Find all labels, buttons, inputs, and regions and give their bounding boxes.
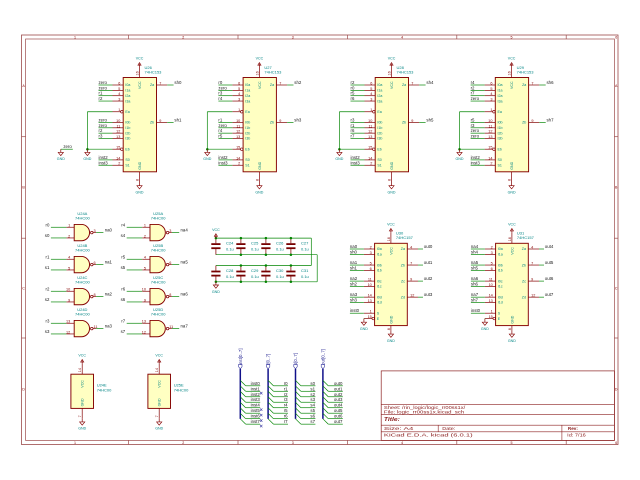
gate U24A 74HC00 body	[74, 224, 93, 240]
IC U28 pin names	[377, 81, 406, 170]
label r3	[99, 134, 103, 139]
svg-text:inst2: inst2	[251, 392, 261, 397]
svg-text:out0: out0	[334, 381, 343, 386]
bus entry inst4	[240, 402, 245, 407]
junction enable net U26	[86, 148, 89, 151]
label r1	[46, 254, 50, 259]
svg-text:sh1: sh1	[174, 117, 182, 122]
svg-text:out5: out5	[545, 260, 554, 265]
svg-text:I0b: I0b	[498, 263, 503, 267]
power VCC above U24E	[78, 354, 86, 364]
svg-text:S1: S1	[498, 163, 502, 167]
svg-text:11: 11	[368, 278, 372, 282]
svg-text:4: 4	[401, 36, 403, 40]
wire s1 from bus	[301, 390, 316, 392]
wire s6 from bus	[301, 418, 316, 420]
IC U26 pin names	[125, 81, 154, 170]
svg-text:3: 3	[490, 98, 492, 102]
svg-text:r3: r3	[218, 91, 222, 96]
label sh6	[547, 80, 555, 85]
svg-text:3: 3	[169, 229, 171, 233]
power GND below U25E	[155, 419, 163, 431]
svg-text:4: 4	[490, 92, 492, 96]
svg-text:out2: out2	[424, 276, 433, 281]
wire U25C output to na6	[172, 296, 179, 298]
wire inst2 to U26.S0	[99, 159, 113, 161]
unconnected marker inst5	[260, 414, 262, 416]
svg-text:3: 3	[118, 98, 120, 102]
label na2	[350, 276, 358, 281]
label sh2	[350, 281, 358, 286]
svg-text:inst1: inst1	[251, 386, 261, 391]
svg-text:sh0: sh0	[350, 249, 358, 254]
svg-text:r2: r2	[99, 96, 103, 101]
svg-text:GND: GND	[158, 398, 162, 406]
svg-text:GND: GND	[57, 157, 65, 161]
svg-text:7: 7	[159, 81, 161, 85]
svg-text:5: 5	[370, 262, 372, 266]
label na6	[181, 292, 189, 297]
label r2	[471, 85, 475, 90]
svg-text:I2a: I2a	[245, 94, 250, 98]
bus inst[0..7]	[239, 369, 241, 419]
wire r7 to U28.I3b	[351, 138, 365, 140]
IC U24E pins and pin numbers	[78, 364, 82, 419]
wire out3 from bus	[328, 401, 343, 403]
svg-text:r[0..7]: r[0..7]	[266, 354, 271, 365]
svg-text:12: 12	[142, 330, 146, 334]
svg-text:out7: out7	[545, 292, 554, 297]
svg-text:VCC: VCC	[138, 81, 142, 89]
IC U29 pin names	[498, 81, 527, 170]
frame column numbers 1-6	[74, 36, 617, 445]
label inst1	[251, 386, 261, 391]
label r0	[284, 381, 288, 386]
label sh6	[471, 281, 479, 286]
svg-text:9: 9	[410, 278, 412, 282]
svg-text:9: 9	[144, 298, 146, 302]
svg-text:74HC157: 74HC157	[396, 235, 414, 240]
wire inst3 to U29.S1	[471, 164, 485, 166]
svg-text:inst3: inst3	[351, 160, 361, 165]
label out3	[424, 292, 433, 297]
svg-text:74HC00: 74HC00	[97, 388, 112, 393]
svg-text:s4: s4	[121, 233, 126, 238]
svg-text:10: 10	[489, 283, 493, 287]
svg-text:9: 9	[159, 119, 161, 123]
wire s6 to U25C input 2	[127, 301, 143, 303]
wire out1 from bus	[328, 390, 343, 392]
label out4	[545, 244, 554, 249]
svg-text:inst3: inst3	[99, 160, 109, 165]
power GND for zero net	[57, 149, 65, 161]
junction enable net U28	[338, 148, 341, 151]
svg-text:6: 6	[370, 81, 372, 85]
label na7	[181, 324, 189, 329]
svg-text:13: 13	[236, 135, 240, 139]
svg-text:r6: r6	[121, 286, 125, 291]
power GND on enable net U27	[203, 149, 211, 161]
svg-text:14: 14	[368, 156, 372, 160]
svg-text:Eb: Eb	[245, 147, 249, 151]
svg-text:16: 16	[387, 237, 391, 241]
power GND on enable net U29	[456, 149, 464, 161]
svg-text:8: 8	[508, 179, 512, 181]
wire U29.Ea to enable net	[460, 112, 485, 149]
wire r2 to U26.I3a	[99, 100, 113, 102]
wire zero to U26.I0b	[99, 121, 113, 123]
gate U25A 74HC00 body	[150, 224, 169, 240]
bus entry out7	[323, 419, 328, 424]
svg-text:I0a: I0a	[245, 83, 250, 87]
wire na0 to U30.I0a	[350, 248, 364, 250]
svg-text:I0a: I0a	[498, 247, 503, 251]
svg-text:na1: na1	[105, 260, 113, 265]
svg-text:I3a: I3a	[125, 99, 130, 103]
label s7	[121, 329, 126, 334]
svg-text:74HC00: 74HC00	[151, 279, 166, 284]
svg-text:r1: r1	[46, 254, 50, 259]
svg-text:r5: r5	[121, 254, 125, 259]
svg-text:na7: na7	[181, 324, 189, 329]
svg-text:7: 7	[411, 81, 413, 85]
power GND below U28	[388, 183, 396, 195]
wire r3 to U28.I0b	[351, 121, 365, 123]
svg-text:7: 7	[531, 81, 533, 85]
label sh5	[471, 265, 479, 270]
svg-text:14: 14	[116, 156, 120, 160]
svg-text:Zc: Zc	[401, 279, 405, 283]
svg-text:VCC: VCC	[158, 380, 162, 388]
svg-text:Ea: Ea	[377, 110, 381, 114]
svg-text:5: 5	[491, 262, 493, 266]
svg-text:74HC00: 74HC00	[174, 388, 189, 393]
wire inst0 to U31.S	[471, 312, 485, 314]
gate U25D pins and pin numbers	[142, 320, 173, 335]
wire zero to U29.I2b	[471, 132, 485, 134]
svg-text:r5: r5	[351, 91, 355, 96]
label na1	[105, 260, 113, 265]
svg-text:inst6: inst6	[251, 414, 261, 419]
wire r6 from bus	[273, 418, 288, 420]
wire r5 to U28.I2a	[351, 95, 365, 97]
unconnected marker inst1	[260, 392, 262, 394]
svg-text:Eb: Eb	[125, 147, 129, 151]
wire s2 from bus	[301, 396, 316, 398]
svg-text:S1: S1	[377, 163, 381, 167]
label sh1	[174, 117, 182, 122]
wire s0 to U24A input 2	[51, 237, 67, 239]
svg-text:15: 15	[116, 146, 120, 150]
bus entry s5	[296, 408, 301, 413]
title block outline	[381, 371, 614, 441]
svg-text:inst3: inst3	[251, 397, 261, 402]
label zero	[99, 85, 108, 90]
power VCC above U27	[256, 57, 264, 67]
svg-text:4: 4	[410, 245, 412, 249]
wire inst3 from bus	[246, 401, 261, 403]
wire U31 output to out6	[539, 280, 544, 282]
bus entry r4	[268, 402, 273, 407]
wire zero to U26.I0a	[99, 84, 113, 86]
wire r5 to U27.I3b	[218, 138, 232, 140]
label inst2	[99, 155, 109, 160]
svg-text:3: 3	[94, 229, 96, 233]
label inst5	[251, 408, 261, 413]
svg-text:Eb: Eb	[498, 147, 502, 151]
wire U24C output to na2	[96, 296, 103, 298]
svg-text:r5: r5	[284, 408, 288, 413]
power GND below U29	[508, 183, 516, 195]
svg-text:zero: zero	[471, 128, 480, 133]
svg-text:74HC00: 74HC00	[151, 215, 166, 220]
svg-text:I0a: I0a	[125, 83, 130, 87]
svg-text:14: 14	[78, 368, 82, 372]
svg-text:inst5: inst5	[251, 408, 261, 413]
svg-text:I0c: I0c	[377, 279, 382, 283]
svg-text:na0: na0	[105, 228, 113, 233]
label zero	[99, 80, 108, 85]
bus entry inst0	[240, 380, 245, 385]
power VCC for capacitor bank	[212, 228, 220, 238]
svg-text:na2: na2	[350, 276, 358, 281]
svg-text:s2: s2	[45, 297, 50, 302]
capacitor C28 0.1u	[211, 266, 234, 282]
wire r1 to U27.I0b	[218, 121, 232, 123]
wire GND rail bottom capacitor row	[216, 281, 317, 283]
svg-text:6: 6	[491, 267, 493, 271]
capacitor C26 0.1u	[261, 238, 284, 255]
svg-text:sh6: sh6	[471, 281, 479, 286]
svg-text:Za: Za	[270, 83, 274, 87]
wire U26 output to sh0	[167, 84, 173, 86]
svg-text:zero: zero	[99, 85, 108, 90]
svg-text:Zd: Zd	[522, 295, 526, 299]
svg-text:Ea: Ea	[498, 110, 502, 114]
wire VCC rail top capacitor row	[216, 238, 311, 265]
svg-text:r3: r3	[351, 117, 355, 122]
frame row letters A-D	[22, 84, 618, 391]
svg-text:r7: r7	[121, 318, 125, 323]
label r2	[351, 80, 355, 85]
label inst3	[351, 160, 361, 165]
svg-text:VCC: VCC	[136, 57, 144, 61]
hierarchical label inst[0..7]	[238, 348, 243, 368]
svg-text:11: 11	[236, 124, 240, 128]
svg-text:r4: r4	[218, 128, 222, 133]
svg-text:I3a: I3a	[245, 99, 250, 103]
wire r1 to U28.I1b	[351, 127, 365, 129]
svg-text:1: 1	[238, 108, 240, 112]
wire r4 to U29.I0a	[471, 84, 485, 86]
svg-text:I3a: I3a	[377, 99, 382, 103]
svg-text:8: 8	[169, 293, 171, 297]
svg-text:s1: s1	[45, 265, 50, 270]
svg-text:6: 6	[615, 441, 617, 445]
svg-text:7: 7	[410, 262, 412, 266]
wire r1 to U26.I2a	[99, 95, 113, 97]
svg-text:15: 15	[488, 146, 492, 150]
svg-text:r0: r0	[351, 85, 355, 90]
label s3	[45, 329, 50, 334]
wire out4 from bus	[328, 407, 343, 409]
svg-text:I0a: I0a	[377, 247, 382, 251]
svg-text:14: 14	[489, 294, 493, 298]
gate U24D reference and value	[75, 307, 90, 317]
IC U29 74HC153 body	[495, 78, 528, 172]
wire r3 from bus	[273, 401, 288, 403]
svg-text:13: 13	[488, 135, 492, 139]
wire sh7 to U31.I1d	[471, 302, 485, 304]
svg-text:2: 2	[490, 162, 492, 166]
wire inst0 from bus	[246, 385, 261, 387]
wire U27.Ea to enable net	[207, 112, 232, 149]
wire U24A output to na0	[96, 232, 103, 234]
title block File line	[384, 410, 465, 415]
label r7	[284, 419, 288, 424]
svg-text:10: 10	[236, 119, 240, 123]
label s2	[45, 297, 50, 302]
svg-text:na6: na6	[471, 276, 479, 281]
IC U30 74HC157 body	[375, 243, 408, 325]
svg-text:VCC: VCC	[389, 247, 393, 255]
label r5	[351, 91, 355, 96]
wire U26.Eb to enable net	[87, 148, 112, 150]
title block KiCad version row	[384, 432, 474, 437]
label r1	[218, 117, 222, 122]
junctions on VCC capacitor rail	[215, 237, 293, 267]
svg-text:0.1u: 0.1u	[276, 246, 284, 251]
svg-text:Ea: Ea	[125, 110, 129, 114]
svg-text:15: 15	[489, 315, 493, 319]
IC U28 pins and pin numbers	[365, 67, 420, 183]
label inst3	[99, 160, 109, 165]
svg-text:I1b: I1b	[245, 126, 250, 130]
svg-text:I0b: I0b	[377, 121, 382, 125]
svg-text:Size: A4: Size: A4	[384, 426, 414, 431]
svg-text:r3: r3	[99, 134, 103, 139]
svg-text:9: 9	[279, 119, 281, 123]
svg-text:C24: C24	[226, 241, 234, 246]
wire U30 output to out2	[418, 280, 423, 282]
svg-text:out6: out6	[334, 414, 343, 419]
label r5	[121, 254, 125, 259]
svg-text:r5: r5	[218, 134, 222, 139]
label inst3	[218, 160, 228, 165]
svg-text:2: 2	[370, 245, 372, 249]
svg-text:12: 12	[368, 130, 372, 134]
svg-text:10: 10	[142, 288, 146, 292]
label r4	[284, 403, 288, 408]
wire s3 to U24D input 2	[51, 333, 67, 335]
svg-text:1: 1	[370, 310, 372, 314]
wire zero to U29.I3b	[471, 138, 485, 140]
label zero	[471, 96, 480, 101]
IC U24E pin names VCC GND	[81, 380, 85, 407]
wire r0 to U28.I1a	[351, 89, 365, 91]
wire U25A output to na4	[172, 232, 179, 234]
svg-text:Zb: Zb	[522, 263, 526, 267]
label zero	[471, 128, 480, 133]
svg-text:3: 3	[292, 441, 294, 445]
label r3	[46, 318, 50, 323]
label sh4	[471, 249, 479, 254]
wire U25D output to na7	[172, 328, 179, 330]
wire r5 from bus	[273, 412, 288, 414]
svg-text:VCC: VCC	[508, 223, 516, 227]
svg-text:1: 1	[68, 224, 70, 228]
junction enable net U29	[458, 148, 461, 151]
frame column ticks top/bottom	[129, 35, 567, 445]
svg-text:GND: GND	[212, 290, 220, 294]
wire r3 to U27.I2a	[218, 95, 232, 97]
label out7	[545, 292, 554, 297]
svg-text:10: 10	[488, 119, 492, 123]
svg-text:7: 7	[279, 81, 281, 85]
svg-text:out1: out1	[424, 260, 433, 265]
wire U31 output to out4	[539, 248, 544, 250]
power GND on enable net U28	[335, 149, 343, 161]
bus entry s3	[296, 397, 301, 402]
power GND below U31	[508, 331, 516, 343]
svg-text:2: 2	[182, 441, 184, 445]
capacitor C31 0.1u	[286, 266, 309, 282]
svg-text:File: logic_rr00ss1x.kicad_sch: File: logic_rr00ss1x.kicad_sch	[384, 410, 465, 415]
svg-text:na3: na3	[105, 324, 113, 329]
svg-text:r1: r1	[218, 117, 222, 122]
svg-text:s0: s0	[45, 233, 50, 238]
svg-text:0.1u: 0.1u	[276, 274, 284, 279]
svg-text:GND: GND	[389, 315, 393, 323]
bus entry s1	[296, 386, 301, 391]
svg-text:Eb: Eb	[377, 147, 381, 151]
label zero	[99, 123, 108, 128]
svg-text:10: 10	[368, 283, 372, 287]
wire U24D output to na3	[96, 328, 103, 330]
label inst0	[251, 381, 261, 386]
svg-text:I0a: I0a	[377, 83, 382, 87]
svg-text:sh2: sh2	[294, 80, 302, 85]
label r4	[121, 222, 125, 227]
svg-text:GND: GND	[81, 398, 85, 406]
svg-text:4: 4	[238, 92, 240, 96]
svg-text:r7: r7	[351, 134, 355, 139]
svg-text:74HC00: 74HC00	[151, 311, 166, 316]
bus r[0..7]	[267, 369, 269, 419]
svg-text:I3a: I3a	[498, 99, 503, 103]
bus entry s2	[296, 391, 301, 396]
label inst3	[251, 397, 261, 402]
gate U25C reference and value	[151, 275, 166, 285]
power GND on U30.E	[360, 319, 368, 331]
svg-text:C28: C28	[226, 268, 234, 273]
svg-text:S1: S1	[245, 163, 249, 167]
svg-text:sh4: sh4	[471, 249, 479, 254]
svg-text:74HC153: 74HC153	[145, 69, 163, 74]
label r2	[46, 286, 50, 291]
title block horizontal dividers	[381, 405, 614, 432]
svg-text:D: D	[615, 387, 618, 391]
svg-text:2: 2	[144, 234, 146, 238]
svg-text:GND: GND	[136, 191, 144, 195]
wire U30 output to out1	[418, 264, 423, 266]
hierarchical label r[0..7]	[266, 354, 271, 369]
wire out0 from bus	[328, 385, 343, 387]
svg-text:13: 13	[368, 299, 372, 303]
svg-text:9: 9	[531, 119, 533, 123]
label r5	[471, 117, 475, 122]
svg-text:0.1u: 0.1u	[226, 274, 234, 279]
